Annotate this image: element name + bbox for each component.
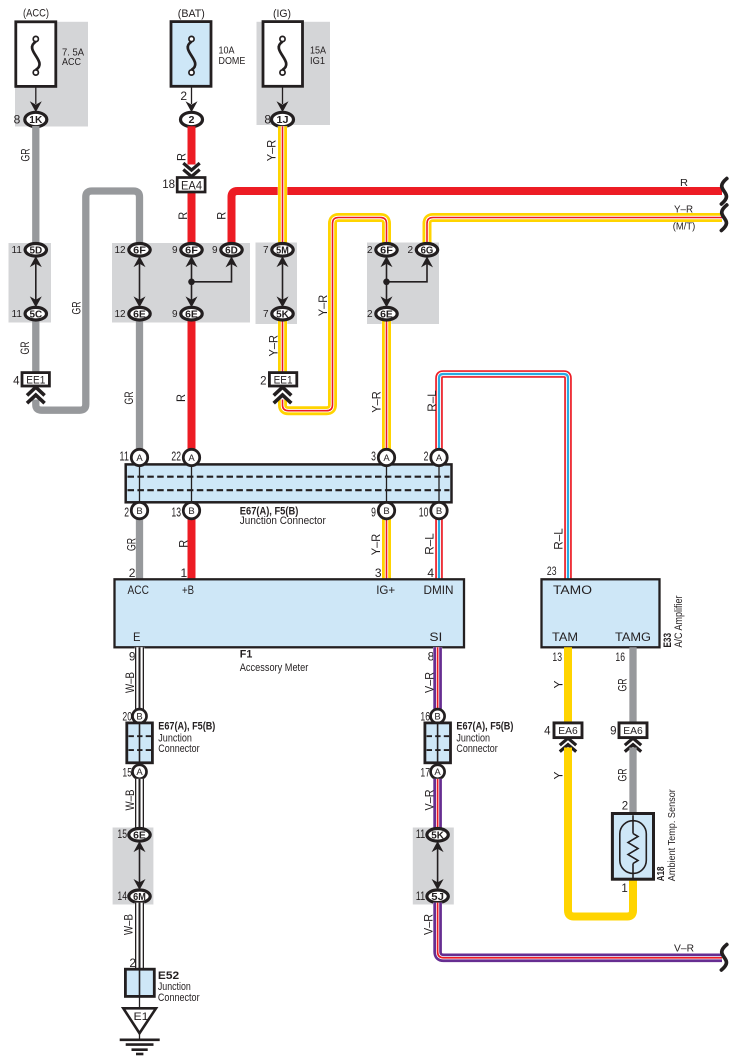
svg-text:4: 4 — [427, 566, 434, 580]
svg-text:12: 12 — [114, 245, 126, 256]
svg-text:A: A — [436, 453, 443, 464]
wire GR 6E to junction A — [136, 320, 143, 450]
pin 23 number — [547, 564, 557, 578]
pin 9 oval 6F — [172, 244, 202, 257]
E33 pin labels — [552, 583, 651, 644]
label W-B — [123, 790, 137, 811]
svg-text:Connector: Connector — [158, 992, 200, 1004]
node B 20 — [122, 709, 146, 724]
connector shading block 5K/5J — [413, 828, 454, 905]
pin 11 oval 5C — [12, 307, 47, 320]
connector shading (IG fuse area) — [257, 22, 331, 125]
svg-text:2: 2 — [424, 450, 429, 464]
label W-B — [123, 672, 137, 693]
node A 3 — [371, 449, 395, 465]
wire Y-R loop EE1 to 6F — [283, 218, 387, 411]
label GR — [124, 538, 138, 551]
svg-text:1: 1 — [621, 883, 627, 895]
label R at right edge — [680, 177, 688, 189]
connector EE1 (4) — [13, 373, 49, 404]
pin 9 oval 6D — [212, 244, 242, 257]
svg-text:GR: GR — [615, 768, 629, 781]
pin 15 oval 6E — [117, 827, 150, 842]
svg-text:TAMG: TAMG — [615, 630, 651, 644]
connector shading block 6E/6M — [113, 828, 154, 905]
svg-text:9: 9 — [371, 506, 376, 520]
ambient temp sensor A18 box — [612, 814, 653, 880]
label R — [176, 211, 190, 219]
pin number 2 — [180, 89, 187, 103]
svg-text:R: R — [176, 211, 190, 219]
pin 2 oval 6F — [367, 244, 397, 257]
wire GR loop EE1 to 6F — [36, 191, 140, 410]
svg-text:GR: GR — [122, 391, 136, 404]
svg-text:IG+: IG+ — [376, 583, 395, 597]
svg-text:Y–R: Y–R — [370, 391, 384, 413]
svg-text:EA6: EA6 — [558, 726, 578, 737]
svg-text:15: 15 — [122, 766, 132, 780]
label strip Junction Connector — [240, 515, 326, 527]
node B 9 — [371, 502, 395, 519]
svg-text:R: R — [174, 394, 188, 402]
svg-text:R–L: R–L — [423, 533, 437, 555]
wire V-R from SI pin to B16 — [433, 647, 442, 710]
wire Y-R from 1J to 5M — [278, 126, 288, 244]
svg-text:E67(A), F5(B): E67(A), F5(B) — [456, 721, 513, 733]
pin 2 oval 6E — [367, 307, 397, 320]
svg-text:23: 23 — [547, 564, 557, 578]
node A 17 — [420, 765, 444, 780]
node A 11 — [119, 449, 147, 465]
pin 2 number — [622, 800, 628, 812]
label E52 Junction Connector — [158, 970, 200, 1004]
pin 8 oval 1J — [264, 112, 293, 126]
node A 15 — [122, 765, 146, 780]
label strip E67(A), F5(B) — [240, 505, 299, 517]
svg-text:A: A — [136, 453, 143, 464]
svg-text:(ACC): (ACC) — [23, 8, 49, 20]
accessory meter F1 box — [115, 579, 465, 647]
svg-text:5C: 5C — [29, 309, 42, 320]
svg-text:F1: F1 — [240, 649, 253, 661]
fuse BAT 10A body — [171, 22, 211, 87]
svg-text:W–B: W–B — [122, 914, 136, 935]
label Y-R at right edge — [674, 204, 693, 216]
double arrow 5M-5K — [277, 256, 289, 307]
wire W-B from 6M to E52 — [135, 903, 145, 970]
svg-text:B: B — [434, 712, 440, 723]
svg-text:2: 2 — [622, 800, 628, 812]
arrow into 1J — [277, 101, 289, 112]
svg-text:9: 9 — [172, 309, 178, 320]
svg-text:Junction Connector: Junction Connector — [240, 515, 326, 527]
svg-text:9: 9 — [172, 245, 178, 256]
svg-text:14: 14 — [117, 889, 127, 903]
svg-text:B: B — [383, 506, 389, 517]
wire E52 to ground E1 — [139, 996, 141, 1008]
junction connector E52 — [125, 969, 154, 996]
arrow into 6G — [421, 256, 433, 267]
node B 10 — [419, 502, 447, 519]
svg-text:B: B — [188, 506, 194, 517]
label V-R — [422, 672, 436, 693]
svg-text:7: 7 — [263, 309, 269, 320]
svg-text:13: 13 — [552, 650, 562, 664]
label Y-R — [316, 294, 330, 316]
wire Y from TAM pin to EA6 — [564, 647, 572, 723]
label Y — [551, 681, 565, 689]
svg-text:1: 1 — [181, 566, 188, 580]
pin numbers above F1 — [129, 566, 435, 580]
svg-text:5J: 5J — [431, 892, 444, 903]
label W-B — [122, 914, 136, 935]
svg-text:Connector: Connector — [158, 743, 200, 755]
pin 11 oval 5D — [12, 244, 47, 257]
svg-text:5K: 5K — [431, 830, 444, 841]
connector EA6 (9) — [610, 723, 647, 752]
svg-text:B: B — [436, 506, 442, 517]
svg-text:GR: GR — [18, 341, 32, 354]
label GR — [70, 301, 84, 314]
connector shading block 6F/6G/6E — [367, 243, 439, 325]
connector shading block 5D/5C — [9, 243, 52, 323]
arrow into oval 2 — [186, 101, 198, 112]
svg-text:6F: 6F — [380, 245, 393, 256]
thermistor element — [628, 815, 638, 879]
svg-text:(IG): (IG) — [273, 8, 291, 20]
svg-text:V–R: V–R — [422, 789, 436, 810]
break symbol wire Y-R — [721, 205, 726, 231]
svg-text:GR: GR — [124, 538, 138, 551]
arrow into 1K — [30, 101, 42, 112]
svg-text:R: R — [177, 539, 191, 547]
wire core through strip col C — [191, 464, 193, 502]
svg-text:(M/T): (M/T) — [673, 221, 696, 233]
wire fuse IG to pin 1J — [282, 86, 284, 104]
wire R branch 6D to (M/T) right edge — [232, 191, 723, 244]
label A18 Ambient Temp Sensor — [656, 789, 678, 882]
svg-text:R–L: R–L — [425, 390, 439, 412]
svg-text:A/C Amplifier: A/C Amplifier — [673, 595, 685, 647]
svg-text:TAM: TAM — [552, 630, 578, 644]
pin 9 oval 6E — [172, 307, 202, 320]
label junction connector right — [456, 721, 513, 755]
svg-text:4: 4 — [544, 725, 551, 737]
wire R junction B to +B pin — [188, 519, 196, 580]
junction dot and branch to 6D — [188, 264, 231, 285]
ground triangle E1 — [123, 1008, 156, 1033]
pin 11 oval 5K — [416, 827, 449, 842]
label GR — [615, 768, 629, 781]
svg-text:Y: Y — [551, 681, 565, 689]
wire Y-R junction B to IG+ pin — [382, 519, 392, 580]
F1 pin labels — [128, 583, 454, 644]
wire GR junction B to ACC pin — [136, 519, 143, 580]
connector shading block 5M/5K — [256, 243, 298, 325]
double arrow 6F-6E (9) — [186, 256, 198, 307]
double arrow 6F-6E (2) — [381, 256, 393, 307]
svg-text:IG1: IG1 — [310, 55, 325, 67]
svg-text:16: 16 — [615, 650, 625, 664]
svg-text:12: 12 — [114, 309, 126, 320]
wire Y from EA6 to sensor pin 1 — [568, 748, 633, 917]
svg-text:Y–R: Y–R — [265, 139, 279, 161]
svg-text:Ambient Temp. Sensor: Ambient Temp. Sensor — [667, 789, 678, 882]
svg-text:Y–R: Y–R — [674, 204, 693, 216]
svg-text:2: 2 — [367, 309, 373, 320]
svg-text:2: 2 — [180, 89, 187, 103]
wire Y-R from 6G to (M/T) right edge — [427, 218, 722, 245]
svg-text:6F: 6F — [133, 245, 146, 256]
double arrow 6F-6E — [134, 256, 146, 307]
svg-text:R: R — [174, 153, 188, 161]
wire Y-R from 5K to EE1 — [278, 320, 288, 374]
svg-text:4: 4 — [13, 375, 20, 387]
svg-text:5K: 5K — [276, 309, 289, 320]
svg-text:11: 11 — [119, 450, 129, 464]
wire R 6E to junction A — [188, 320, 196, 450]
svg-text:11: 11 — [12, 245, 23, 256]
svg-text:E1: E1 — [134, 1011, 149, 1023]
junction dot and branch to 6G — [383, 264, 427, 285]
svg-text:A18: A18 — [656, 866, 667, 881]
svg-text:E52: E52 — [158, 970, 179, 982]
wire core through strip col G — [386, 464, 388, 502]
label GR — [615, 678, 629, 691]
svg-text:DOME: DOME — [219, 55, 246, 67]
svg-text:Y–R: Y–R — [316, 294, 330, 316]
label Y-R — [265, 139, 279, 161]
svg-text:A: A — [434, 767, 441, 778]
svg-text:W–B: W–B — [123, 672, 137, 693]
svg-text:EE1: EE1 — [26, 375, 45, 387]
pin 14 oval 6M — [117, 889, 150, 903]
svg-text:6E: 6E — [185, 309, 198, 320]
svg-text:2: 2 — [189, 114, 195, 126]
pin 8 oval 1K — [14, 112, 47, 126]
pin 7 oval 5K — [263, 307, 293, 320]
svg-text:ACC: ACC — [128, 583, 150, 597]
wire R from fuse 2 down to EA4 — [188, 126, 196, 164]
svg-text:7: 7 — [263, 245, 269, 256]
pin 2 oval 6G — [407, 244, 437, 257]
svg-text:6M: 6M — [133, 892, 146, 903]
svg-text:1K: 1K — [29, 114, 42, 126]
svg-text:3: 3 — [371, 450, 376, 464]
svg-text:15: 15 — [117, 827, 127, 841]
wire GR from TAMG pin to EA6 — [629, 647, 636, 723]
wire fuse BAT to pin 2 — [191, 86, 193, 104]
svg-text:V–R: V–R — [422, 672, 436, 693]
svg-text:Accessory Meter: Accessory Meter — [240, 662, 309, 674]
double arrow 5D-5C — [30, 256, 42, 307]
label Y — [551, 772, 565, 780]
label GR — [18, 341, 32, 354]
wire W-B from A15 to 6E — [135, 779, 145, 829]
break symbol wire V-R — [721, 945, 726, 971]
svg-text:R: R — [680, 177, 688, 189]
label V-R at right edge — [674, 943, 694, 955]
svg-text:W–B: W–B — [123, 790, 137, 811]
svg-text:3: 3 — [375, 566, 382, 580]
double arrow 6E-6M — [134, 841, 146, 890]
svg-text:2: 2 — [124, 506, 129, 520]
junction connector block E67/F5 (left) — [127, 723, 153, 763]
svg-text:2: 2 — [129, 566, 136, 580]
fuse IG value label — [310, 45, 326, 67]
svg-text:Y: Y — [551, 772, 565, 780]
svg-text:1J: 1J — [277, 114, 289, 126]
svg-text:6G: 6G — [421, 245, 434, 256]
pin 12 oval 6F — [114, 244, 150, 257]
fuse BAT value label — [219, 45, 246, 67]
pin numbers below E33 — [552, 650, 625, 664]
connector shading (ACC fuse area) — [15, 22, 88, 127]
svg-text:17: 17 — [420, 766, 430, 780]
svg-text:6D: 6D — [225, 245, 238, 256]
svg-text:11: 11 — [416, 889, 426, 903]
pin 2 number — [129, 956, 136, 970]
wire triangle to ground — [139, 1033, 141, 1040]
svg-text:11: 11 — [416, 827, 426, 841]
label R — [177, 539, 191, 547]
wire V-R from A17 to 5K — [433, 779, 442, 829]
fuse (BAT) label — [178, 8, 205, 20]
label R — [174, 394, 188, 402]
svg-text:ACC: ACC — [62, 56, 81, 68]
svg-text:6E: 6E — [133, 830, 146, 841]
svg-text:GR: GR — [18, 148, 32, 161]
svg-text:2: 2 — [407, 245, 413, 256]
break symbol wire R — [721, 179, 726, 205]
label F1 Accessory Meter — [240, 649, 309, 675]
label R-L — [425, 390, 439, 412]
svg-text:18: 18 — [162, 179, 175, 191]
svg-text:9: 9 — [610, 725, 616, 737]
svg-text:5M: 5M — [276, 245, 289, 256]
label R — [174, 153, 188, 161]
svg-text:(BAT): (BAT) — [178, 8, 205, 20]
node A 22 — [171, 449, 199, 465]
pin 1 number — [621, 883, 627, 895]
svg-text:TAMO: TAMO — [553, 583, 592, 597]
wire core through strip col B — [139, 464, 141, 502]
wire R from EA4 to 6F — [188, 192, 196, 244]
svg-text:13: 13 — [171, 506, 181, 520]
wire W-B from E pin to B20 — [135, 647, 145, 710]
svg-text:10: 10 — [419, 506, 429, 520]
label junction connector left — [158, 721, 215, 755]
pin numbers below F1 — [129, 649, 435, 663]
svg-text:GR: GR — [615, 678, 629, 691]
svg-text:DMIN: DMIN — [424, 583, 454, 597]
ground symbol — [120, 1040, 160, 1054]
svg-text:A: A — [136, 767, 143, 778]
svg-text:5D: 5D — [29, 245, 42, 256]
svg-text:2: 2 — [367, 245, 373, 256]
pin 11 oval 5J — [416, 889, 449, 903]
wire fuse ACC to pin 1K — [35, 86, 37, 104]
junction connector strip E67(A) F5(B) — [126, 464, 452, 502]
label Y-R — [266, 335, 280, 357]
svg-text:Y–R: Y–R — [266, 335, 280, 357]
label Y-R — [369, 533, 383, 555]
svg-text:R: R — [214, 211, 228, 219]
pin 7 oval 5M — [263, 244, 293, 257]
svg-text:22: 22 — [171, 450, 181, 464]
svg-text:6E: 6E — [380, 309, 393, 320]
svg-text:2: 2 — [129, 956, 136, 970]
svg-text:6E: 6E — [133, 309, 146, 320]
fuse IG 15A body — [263, 22, 303, 87]
svg-text:R–L: R–L — [552, 528, 566, 550]
svg-text:A: A — [383, 453, 390, 464]
svg-text:GR: GR — [70, 301, 84, 314]
connector shading block 6F/6D/6E — [112, 243, 250, 323]
svg-text:EA4: EA4 — [181, 179, 202, 193]
svg-text:B: B — [136, 506, 142, 517]
A/C amplifier E33 box — [542, 579, 660, 647]
svg-text:EA6: EA6 — [623, 726, 643, 737]
connector EE1 (2) — [260, 373, 297, 404]
label (M/T) — [673, 221, 696, 233]
svg-text:6F: 6F — [185, 245, 198, 256]
label R — [214, 211, 228, 219]
svg-text:+B: +B — [182, 583, 194, 597]
label R-L — [552, 528, 566, 550]
label V-R — [422, 789, 436, 810]
pin oval 2 — [181, 112, 203, 126]
node B 16 — [420, 709, 444, 724]
svg-text:V–R: V–R — [674, 943, 694, 955]
svg-text:V–R: V–R — [422, 914, 436, 935]
fuse (ACC) label — [23, 8, 49, 20]
node B 2 — [124, 502, 148, 519]
svg-text:B: B — [136, 712, 142, 723]
wire GR from 1K to 5D — [32, 126, 39, 244]
label V-R — [422, 914, 436, 935]
arrow into 6D — [226, 256, 238, 267]
svg-text:EE1: EE1 — [274, 375, 293, 387]
wire Y-R 6E to junction A — [382, 320, 392, 450]
svg-text:2: 2 — [260, 375, 266, 387]
label R-L — [423, 533, 437, 555]
svg-text:E: E — [133, 630, 141, 644]
label Y-R — [370, 391, 384, 413]
pin 12 oval 6E — [114, 307, 150, 320]
junction connector block E67/F5 (right) — [425, 723, 451, 763]
svg-text:Y–R: Y–R — [369, 533, 383, 555]
double arrow 5K-5J — [432, 841, 444, 890]
svg-text:9: 9 — [212, 245, 218, 256]
node B 13 — [171, 502, 199, 519]
fuse ACC value label — [62, 47, 84, 69]
svg-text:8: 8 — [14, 112, 21, 126]
svg-text:SI: SI — [429, 630, 442, 644]
connector EA6 (4) — [544, 723, 582, 752]
svg-text:E67(A), F5(B): E67(A), F5(B) — [158, 721, 215, 733]
svg-text:11: 11 — [12, 309, 23, 320]
svg-text:Connector: Connector — [456, 743, 498, 755]
fuse ACC 7.5A body — [16, 22, 56, 87]
wire GR from 5C to EE1 — [32, 320, 39, 374]
wire V-R from 5J to right edge — [438, 903, 722, 958]
label GR — [18, 148, 32, 161]
wire R-L junction B to DMIN pin — [435, 519, 443, 580]
label GR — [122, 391, 136, 404]
label E33 A/C Amplifier — [662, 595, 685, 647]
fuse (IG) label — [273, 8, 291, 20]
